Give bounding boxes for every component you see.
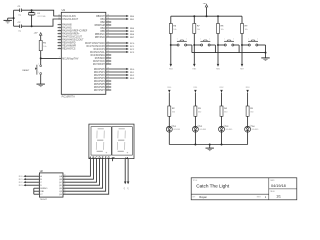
C1 reference label — [18, 6, 22, 8]
R4 reference label — [224, 108, 228, 110]
R9 reference label — [245, 25, 249, 27]
R3 value label 330 — [198, 111, 201, 113]
svg-text:R3: R3 — [198, 108, 202, 110]
C2 value label 15p — [18, 30, 22, 32]
svg-text:RB3/PGM: RB3/PGM — [95, 25, 105, 27]
title block BY label — [193, 197, 196, 199]
U1 pin 17 RC2/CCP1 wire and terminal RC2 — [94, 47, 135, 51]
terminal CA2 — [127, 182, 130, 191]
crystal X1 — [28, 10, 35, 26]
svg-text:2: 2 — [38, 72, 39, 74]
svg-text:RE0/AN5/RD: RE0/AN5/RD — [62, 42, 76, 45]
node junction rail at R7 — [193, 15, 195, 17]
wire R1 to MCLR junction — [40, 51, 42, 59]
wire R5 to D4 — [247, 116, 249, 126]
node junction rail at +5V stem — [206, 15, 208, 17]
wire terminal to R2 — [168, 93, 170, 106]
power +5V (reset pull-up) — [34, 32, 43, 35]
svg-text:G: G — [108, 155, 110, 159]
capacitor C1 — [20, 9, 22, 13]
U1 pin 24 RC5/SDO stub — [95, 56, 111, 60]
D4 reference label — [252, 126, 256, 128]
led D4 — [245, 125, 252, 132]
svg-text:330: 330 — [172, 111, 175, 113]
node junction MCLR — [40, 57, 42, 59]
wire terminal to R3 — [194, 93, 196, 106]
R5 reference label — [250, 108, 254, 110]
wire LED common rail — [169, 144, 247, 146]
display digit 1 cell — [91, 127, 111, 155]
D2 value label LED-RED — [200, 129, 208, 131]
U2 value label 74LS47 — [40, 199, 48, 201]
svg-text:Rayan: Rayan — [199, 195, 207, 199]
svg-text:RC4/SDI/SDA: RC4/SDI/SDA — [91, 54, 106, 57]
node junction button 4 — [241, 44, 243, 46]
R6 reference label — [173, 25, 177, 27]
R8 reference label — [221, 25, 225, 27]
wire R9 to button junction — [241, 33, 243, 45]
U1 pin 34 RB1 wire and terminal RB1 — [100, 17, 134, 21]
title block date 04/19/18 — [271, 184, 286, 188]
U1 pin 18 RC3/SCK/SCL wire and terminal RC3 — [90, 50, 135, 54]
C2 reference label — [18, 22, 22, 24]
svg-text:10: 10 — [58, 47, 60, 49]
display U3 outer body — [89, 124, 134, 159]
svg-text:RB1: RB1 — [130, 19, 135, 21]
C1 value label 15p — [18, 14, 22, 16]
svg-text:RA5/AN4/SS/C2OUT: RA5/AN4/SS/C2OUT — [62, 39, 84, 42]
resistor R9 — [241, 24, 244, 34]
wire D2 to common rail — [194, 132, 196, 144]
svg-text:RB6: RB6 — [130, 34, 135, 36]
svg-text:D3: D3 — [226, 126, 230, 128]
title block rev 1 — [265, 195, 267, 199]
wire rail to R6 — [170, 16, 172, 23]
wire OSC2 net rail to pin — [22, 19, 58, 26]
svg-text:PIC16F877A: PIC16F877A — [62, 96, 76, 99]
svg-text:E: E — [102, 155, 104, 159]
wire junction to reset button — [40, 58, 42, 65]
svg-text:+5V: +5V — [203, 3, 207, 5]
svg-text:R8: R8 — [221, 25, 225, 27]
title block frame — [191, 178, 297, 200]
wire R4 to D3 — [221, 116, 223, 126]
wire display CA2 to terminal — [127, 159, 129, 182]
U2 pin QD label — [59, 184, 66, 187]
svg-text:RC0/T1OSO/T1CKI: RC0/T1OSO/T1CKI — [85, 43, 105, 45]
wire U2 control pins tie — [34, 187, 40, 195]
U1 pin 20 RD1/PSP1 wire and terminal RD1 — [94, 70, 135, 74]
svg-text:RC1/T1OSI/CCP2: RC1/T1OSI/CCP2 — [87, 46, 106, 48]
push-button 4 — [243, 38, 266, 52]
svg-text:RD1: RD1 — [130, 72, 135, 74]
node junction crystal top — [31, 9, 33, 11]
U2 pin C label — [40, 182, 42, 184]
U1 pin 26 RC7/RX/DT stub — [93, 62, 111, 66]
svg-text:2: 2 — [233, 38, 234, 40]
svg-text:LED-RED: LED-RED — [200, 129, 208, 131]
node junction LED rail D3 — [221, 144, 223, 146]
U1 pin 35 RB2 stub — [100, 20, 111, 24]
U2 pin RBI label — [40, 191, 44, 193]
svg-text:A: A — [89, 155, 91, 159]
ground (reset) — [37, 84, 45, 87]
svg-text:D1: D1 — [173, 126, 177, 128]
resistor R1 — [39, 41, 42, 51]
R7 value label 10k — [197, 29, 200, 31]
U1 pin 10 RE2/AN7/CS — [58, 47, 76, 51]
D3 reference label — [226, 126, 230, 128]
title block title text Catch The Light — [196, 184, 230, 189]
svg-text:RE1/AN6/WR: RE1/AN6/WR — [62, 45, 76, 48]
svg-text:+5V: +5V — [34, 32, 38, 34]
U2 pin D label — [40, 185, 42, 187]
svg-text:1/1: 1/1 — [276, 195, 281, 199]
ground (buttons) — [261, 58, 269, 61]
U1 pin 15 RC0/T1OSO/T1CKI wire and terminal RC0 — [85, 41, 135, 45]
display digit 2 cell — [112, 127, 132, 155]
svg-text:RC2/CCP1: RC2/CCP1 — [94, 49, 106, 51]
wire lower rail to ground — [265, 53, 267, 58]
svg-text:1: 1 — [177, 38, 178, 40]
U1 pin 36 RB3/PGM stub — [95, 23, 112, 27]
wire button 3 column to terminal — [217, 45, 219, 64]
U2 pin QC label — [59, 181, 66, 184]
svg-text:RB0/INT: RB0/INT — [96, 16, 105, 18]
wire R3 to D2 — [194, 116, 196, 126]
U1 pin 5 RA3/AN3/VREF+ — [58, 32, 81, 36]
svg-text:RD0/PSP0: RD0/PSP0 — [94, 69, 106, 71]
svg-text:1: 1 — [224, 38, 225, 40]
terminal RC0 to U2 input — [19, 175, 40, 178]
wire +5V to R1 — [40, 36, 42, 41]
svg-text:RD2: RD2 — [220, 87, 224, 89]
U1 pin 40 RB7/PGD wire and terminal RB7 — [95, 35, 135, 39]
svg-text:RD3: RD3 — [130, 78, 135, 80]
U1 pin 27 RD4/PSP4 stub — [94, 79, 111, 83]
svg-text:10k: 10k — [197, 29, 200, 31]
title block REV label — [257, 197, 262, 199]
svg-text:RB5: RB5 — [130, 31, 135, 33]
svg-text:R7: R7 — [197, 25, 201, 27]
node junction lower rail to ground — [265, 52, 267, 54]
svg-text:R5: R5 — [250, 108, 254, 110]
svg-text:OSC2/CLKOUT: OSC2/CLKOUT — [62, 19, 79, 21]
title block page 1/1 — [276, 195, 281, 199]
node junction LED rail ground tap — [209, 144, 211, 146]
wire button 4 column to terminal — [241, 45, 243, 64]
svg-text:R9: R9 — [245, 25, 249, 27]
node junction C1/C2 ground tap — [8, 17, 15, 20]
U2 pin A label — [40, 175, 42, 178]
display DP stub — [112, 159, 114, 162]
U2 pin QA label — [59, 175, 66, 178]
U2 pin QG label — [59, 193, 66, 196]
wire U2 QF to display pin — [63, 159, 106, 192]
ground (LEDs) — [206, 148, 214, 151]
svg-text:R6: R6 — [173, 25, 177, 27]
svg-text:LED-RED: LED-RED — [173, 129, 181, 131]
U1 pin 8 RE0/AN5/RD — [58, 41, 76, 45]
U1 pin 7 RA5/AN4/SS/C2OUT — [58, 38, 85, 42]
wire junction to MCLR pin — [41, 57, 58, 59]
svg-text:RC0: RC0 — [130, 43, 135, 45]
terminal RC3 to U2 input — [19, 184, 40, 187]
svg-text:1: 1 — [38, 64, 39, 66]
U1 pin 1 MCLR/Vpp/THV — [58, 57, 79, 61]
resistor R5 — [246, 106, 249, 116]
svg-text:RB7: RB7 — [240, 68, 244, 70]
wire +5V stem to rail — [206, 8, 208, 17]
wire rail to R7 — [193, 16, 195, 23]
svg-text:U1: U1 — [62, 8, 66, 12]
D1 reference label — [173, 126, 177, 128]
svg-text:RD3/PSP3: RD3/PSP3 — [94, 78, 106, 80]
resistor R7 — [193, 24, 196, 34]
R9 value label 10k — [245, 29, 248, 31]
svg-text:RD1/PSP1: RD1/PSP1 — [94, 72, 106, 74]
svg-text:RB5: RB5 — [192, 68, 196, 70]
node junction button 1 — [170, 44, 172, 46]
U1 pin 19 RD0/PSP0 wire and terminal RD0 — [94, 67, 135, 71]
svg-text:RC2: RC2 — [19, 182, 23, 184]
svg-text:RA0/AN0: RA0/AN0 — [62, 24, 72, 27]
svg-text:C: C — [96, 155, 98, 159]
terminal RB6 (button output) — [216, 64, 220, 70]
svg-text:10k: 10k — [221, 29, 224, 31]
svg-text:RD5/PSP5: RD5/PSP5 — [94, 84, 106, 86]
svg-text:1: 1 — [200, 38, 201, 40]
R6 value label 10k — [173, 29, 176, 31]
D1 value label LED-RED — [173, 129, 181, 131]
svg-text:RD6/PSP6: RD6/PSP6 — [94, 87, 106, 89]
svg-text:RB1: RB1 — [100, 19, 105, 21]
svg-text:D4: D4 — [252, 126, 256, 128]
svg-text:RC3: RC3 — [19, 185, 23, 187]
U2 pin QB label — [59, 178, 66, 181]
led D1 — [166, 125, 173, 132]
wire rail to R8 — [217, 16, 219, 23]
U1 pin 39 RB6/PGC wire and terminal RB6 — [95, 32, 135, 36]
U1 pin 25 RC6/TX/CK stub — [93, 59, 111, 63]
svg-text:2: 2 — [209, 38, 210, 40]
D3 value label LED-RED — [226, 129, 234, 131]
RESET pin numbers — [38, 64, 39, 74]
push-button 3 — [219, 38, 239, 52]
wire U2 QA to display pin — [63, 159, 90, 177]
svg-text:10k: 10k — [245, 29, 248, 31]
svg-text:2: 2 — [257, 38, 258, 40]
terminal CA1 — [124, 182, 127, 191]
svg-text:RD0: RD0 — [167, 87, 171, 89]
svg-text:RC3/SCK/SCL: RC3/SCK/SCL — [90, 52, 106, 54]
wire R6 to button junction — [170, 33, 172, 45]
svg-text:RD2: RD2 — [130, 75, 135, 77]
R5 value label 330 — [250, 111, 253, 113]
U2 reference label — [40, 170, 44, 173]
svg-text:RD1: RD1 — [194, 87, 198, 89]
node junction crystal bottom — [31, 25, 33, 27]
svg-text:RE2/AN7/CS: RE2/AN7/CS — [62, 48, 76, 51]
title block DATE label — [270, 179, 275, 182]
R2 reference label — [172, 108, 176, 110]
svg-text:RESET: RESET — [22, 70, 30, 72]
R1 value label 10k — [43, 46, 46, 48]
wire ground branch left vertical — [13, 10, 15, 26]
title block PAGE label — [270, 190, 275, 193]
svg-text:RC6/TX/CK: RC6/TX/CK — [93, 61, 105, 63]
terminal RC2 to U2 input — [19, 181, 40, 184]
svg-text:14: 14 — [58, 17, 60, 19]
U1 pin 13 OSC1/CLKIN — [58, 14, 76, 18]
U2 pin QE label — [59, 187, 65, 190]
resistor R6 — [169, 24, 172, 34]
svg-text:BI/RBO: BI/RBO — [40, 188, 47, 190]
U1 pin 33 RB0/INT wire and terminal RB0 — [96, 14, 135, 18]
wire U2 QD to display pin — [63, 159, 100, 186]
wire U2 QG to display pin — [63, 159, 109, 195]
U1 pin 14 OSC2/CLKOUT — [58, 17, 79, 21]
terminal RC1 to U2 input — [19, 178, 40, 181]
title block TITLE label — [193, 180, 198, 182]
U1 pin 30 RD7/PSP7 stub — [94, 88, 111, 92]
X1 reference label — [37, 13, 40, 15]
wire +5V buttons rail — [171, 15, 242, 17]
svg-text:C1: C1 — [18, 6, 22, 8]
svg-text:BY:: BY: — [193, 197, 196, 199]
U1 pin 37 RB4 wire and terminal RB4 — [100, 26, 134, 30]
node junction rail at R8 — [217, 15, 219, 17]
U1 reference label — [62, 8, 66, 12]
led D2 — [192, 125, 199, 132]
wire buttons common lower rail — [192, 52, 266, 54]
wire R8 to button junction — [217, 33, 219, 45]
wire terminal to R4 — [221, 93, 223, 106]
svg-text:330: 330 — [198, 111, 201, 113]
resistor R4 — [220, 106, 223, 116]
U1 pin 6 RA4/T0CKI/C1OUT — [58, 35, 83, 39]
svg-text:RC5/SDO: RC5/SDO — [95, 58, 105, 60]
svg-text:QC: QC — [59, 182, 63, 184]
wire LED rail to ground — [209, 145, 211, 149]
wire reset button to ground — [40, 75, 42, 84]
U1 pin 23 RC4/SDI/SDA stub — [91, 53, 112, 57]
wire U2 QC to display pin — [63, 159, 97, 183]
svg-text:RC0: RC0 — [19, 176, 23, 178]
svg-text:RB4: RB4 — [100, 28, 105, 30]
display pin name labels — [89, 155, 128, 159]
node junction LED rail D2 — [194, 144, 196, 146]
wire R7 to button junction — [193, 33, 195, 45]
svg-text:D2: D2 — [200, 126, 204, 128]
R1 reference label — [43, 42, 47, 44]
svg-text:R4: R4 — [224, 108, 228, 110]
U1 pin 22 RD3/PSP3 wire and terminal RD3 — [94, 76, 135, 80]
U2 pin LT label — [40, 194, 43, 196]
wire R2 to D1 — [168, 116, 170, 126]
svg-text:RA2/AN2/VREF-/CVREF: RA2/AN2/VREF-/CVREF — [62, 30, 88, 33]
U1 pin 2 RA0/AN0 — [58, 23, 73, 27]
R2 value label 330 — [172, 111, 175, 113]
wire OSC2 net bottom rail — [14, 25, 20, 27]
terminal RD2 (LED input) — [220, 87, 224, 92]
svg-text:QG: QG — [59, 194, 63, 196]
R7 reference label — [197, 25, 201, 27]
svg-text:15p: 15p — [18, 14, 22, 16]
terminal RD3 (LED input) — [246, 87, 250, 92]
push-button 1 — [172, 38, 192, 52]
svg-text:RD2/PSP2: RD2/PSP2 — [94, 75, 106, 77]
svg-text:04/19/18: 04/19/18 — [271, 184, 286, 188]
wire OSC1 net top rail — [14, 9, 20, 11]
U1 value label PIC16F877A — [62, 96, 76, 99]
svg-text:B: B — [92, 155, 94, 159]
svg-text:2: 2 — [186, 38, 187, 40]
push-button 2 — [195, 38, 215, 52]
svg-text:RD0: RD0 — [130, 69, 135, 71]
wire D4 to common rail — [247, 132, 249, 144]
wire D3 to common rail — [221, 132, 223, 144]
svg-text:D: D — [99, 155, 101, 159]
R3 reference label — [198, 108, 202, 110]
svg-text:RB4: RB4 — [130, 28, 135, 30]
U2 pin BI/RBO label — [40, 188, 47, 190]
terminal RD0 (LED input) — [167, 87, 171, 92]
resistor R2 — [168, 106, 171, 116]
svg-text:+5V: +5V — [128, 186, 130, 190]
wire OSC1 net rail to pin — [22, 10, 58, 16]
resistor R3 — [194, 106, 197, 116]
svg-text:Catch The Light: Catch The Light — [196, 184, 230, 189]
svg-text:R2: R2 — [172, 108, 176, 110]
svg-text:10k: 10k — [173, 29, 176, 31]
svg-text:RC1: RC1 — [130, 46, 135, 48]
svg-text:RB5: RB5 — [100, 31, 105, 33]
terminal RB7 (button output) — [240, 64, 244, 70]
node junction button 3 — [217, 44, 219, 46]
U1 pin 38 RB5 wire and terminal RB5 — [100, 29, 134, 33]
U2 pin QF label — [59, 190, 65, 193]
wire U2 QE to display pin — [63, 159, 103, 189]
svg-text:X1: X1 — [37, 13, 40, 15]
svg-text:+5V: +5V — [124, 186, 126, 190]
svg-text:RC1: RC1 — [19, 179, 23, 181]
X1 value label CRYSTAL — [37, 15, 46, 18]
U2 pin B label — [40, 179, 42, 181]
svg-text:RC2: RC2 — [130, 49, 135, 51]
terminal RD1 (LED input) — [194, 87, 198, 92]
title block author Rayan — [199, 195, 207, 199]
terminal RB5 (button output) — [192, 64, 196, 70]
svg-text:RD3: RD3 — [246, 87, 250, 89]
power +5V (buttons rail) — [203, 3, 208, 7]
svg-text:R1: R1 — [43, 42, 47, 44]
resistor R8 — [217, 24, 220, 34]
svg-text:RB4: RB4 — [169, 68, 173, 70]
wire button 2 column to terminal — [193, 45, 195, 64]
D4 value label LED-RED — [252, 129, 260, 131]
svg-text:QD: QD — [59, 185, 63, 187]
D2 reference label — [200, 126, 204, 128]
op-amp U1 microcontroller PIC16F877A body — [61, 12, 106, 94]
svg-text:13: 13 — [58, 14, 60, 16]
svg-text:RB7/PGD: RB7/PGD — [95, 37, 105, 39]
svg-text:LED-RED: LED-RED — [226, 129, 234, 131]
svg-text:LED-RED: LED-RED — [252, 129, 260, 131]
U1 pin 4 RA2/AN2/VREF-/CVREF — [58, 29, 88, 33]
svg-text:RA1/AN1: RA1/AN1 — [62, 27, 72, 30]
wire rail to R9 — [241, 16, 243, 23]
